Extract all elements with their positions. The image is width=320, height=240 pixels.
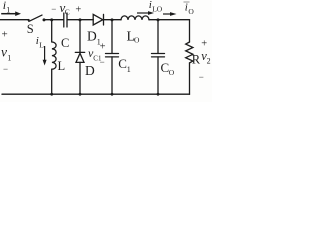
- capacitor C: [63, 13, 65, 27]
- svg-text:C: C: [118, 56, 127, 71]
- node switch left terminal: [28, 19, 30, 21]
- svg-text:i: i: [185, 2, 188, 14]
- arrow i1: [1, 13, 16, 15]
- svg-text:−: −: [100, 57, 105, 67]
- node A bottom: [50, 93, 53, 96]
- wire L to bottom rail: [51, 69, 53, 94]
- node B bottom: [79, 93, 82, 96]
- svg-text:L: L: [39, 41, 44, 50]
- wire Co to bottom rail: [157, 57, 159, 94]
- node A: [50, 18, 53, 21]
- switch S: [29, 15, 42, 21]
- svg-text:C: C: [65, 8, 70, 17]
- wire bottom rail: [2, 93, 190, 95]
- node D bottom: [157, 93, 160, 96]
- svg-text:R: R: [192, 53, 201, 67]
- diode D: [75, 51, 84, 53]
- svg-text:C: C: [61, 36, 69, 50]
- node switch right terminal: [43, 18, 46, 21]
- arrow iL: [44, 46, 46, 61]
- svg-text:S: S: [27, 22, 34, 36]
- svg-text:−: −: [51, 4, 56, 14]
- wire R to bottom rail: [189, 63, 191, 94]
- wire switch to node A: [44, 19, 63, 21]
- svg-text:+: +: [75, 5, 81, 16]
- wire node D down to Co: [157, 20, 159, 54]
- inductor L: [52, 42, 56, 69]
- svg-text:+: +: [2, 29, 8, 41]
- arrow io: [163, 13, 171, 15]
- svg-text:−: −: [199, 72, 204, 82]
- svg-text:O: O: [169, 68, 175, 77]
- capacitor Co: [152, 53, 165, 55]
- wire node A down to L: [51, 20, 53, 42]
- wire D to bottom rail: [79, 62, 81, 94]
- node D: [157, 18, 160, 21]
- node C bottom: [111, 93, 114, 96]
- diode D1: [93, 14, 103, 25]
- svg-text:O: O: [134, 36, 140, 45]
- svg-text:O: O: [188, 7, 194, 16]
- wire right vertical down to R: [189, 20, 191, 42]
- svg-text:+: +: [100, 42, 106, 53]
- wire C to diode D1: [67, 19, 93, 21]
- capacitor C1: [106, 53, 119, 55]
- svg-text:D: D: [87, 29, 97, 44]
- node C: [111, 18, 114, 21]
- wire node C down to C1: [111, 20, 113, 54]
- arrow iLo: [137, 12, 149, 14]
- scan smudge above io: [184, 1, 190, 3]
- inductor Lo: [121, 16, 149, 20]
- svg-text:D: D: [85, 63, 95, 78]
- wire node B down to D: [79, 20, 81, 53]
- svg-text:1: 1: [127, 65, 131, 74]
- svg-text:v: v: [1, 45, 7, 60]
- wire D1 to inductor Lo: [104, 19, 122, 21]
- wire C1 to bottom rail: [111, 57, 113, 94]
- svg-text:LO: LO: [152, 4, 163, 13]
- svg-text:1: 1: [6, 6, 10, 15]
- resistor R: [186, 42, 193, 63]
- svg-text:−: −: [3, 64, 8, 74]
- svg-text:1: 1: [7, 54, 11, 63]
- svg-text:L: L: [58, 59, 66, 73]
- wire Lo to top-right corner: [149, 19, 190, 21]
- node B: [79, 18, 82, 21]
- wire top-left input segment: [0, 19, 29, 21]
- svg-text:+: +: [201, 39, 207, 50]
- svg-text:2: 2: [207, 57, 211, 66]
